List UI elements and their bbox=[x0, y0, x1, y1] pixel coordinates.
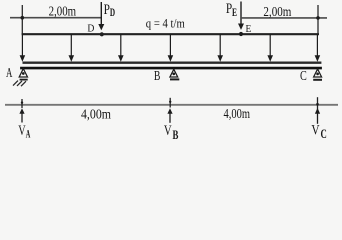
svg-text:2,00m: 2,00m bbox=[263, 5, 291, 20]
svg-text:V: V bbox=[18, 123, 26, 139]
svg-text:B: B bbox=[154, 69, 161, 84]
svg-text:D: D bbox=[110, 5, 115, 19]
svg-text:E: E bbox=[232, 5, 237, 19]
svg-text:4,00m: 4,00m bbox=[224, 107, 251, 122]
svg-text:V: V bbox=[311, 123, 319, 139]
svg-text:A: A bbox=[6, 66, 13, 81]
svg-text:A: A bbox=[26, 127, 31, 141]
svg-text:D: D bbox=[87, 22, 94, 34]
svg-text:C: C bbox=[321, 127, 327, 141]
svg-text:E: E bbox=[246, 23, 252, 35]
svg-text:B: B bbox=[173, 127, 179, 142]
svg-text:q = 4 t/m: q = 4 t/m bbox=[146, 15, 185, 30]
svg-text:V: V bbox=[164, 123, 172, 139]
svg-text:2,00m: 2,00m bbox=[49, 5, 77, 20]
svg-text:C: C bbox=[300, 69, 307, 84]
svg-text:4,00m: 4,00m bbox=[81, 107, 111, 122]
